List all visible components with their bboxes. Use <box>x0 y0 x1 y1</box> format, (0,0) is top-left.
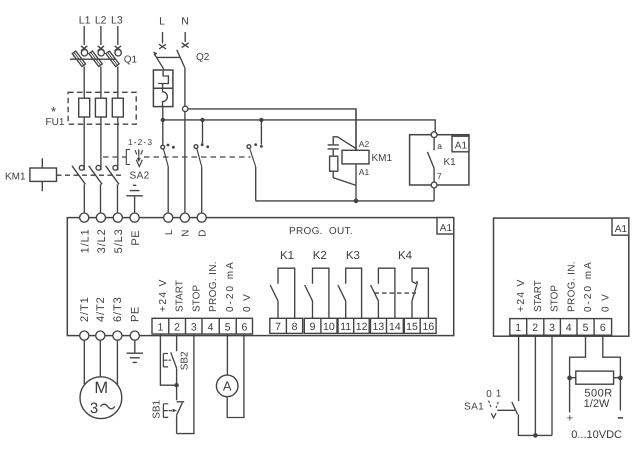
svg-text:L: L <box>164 229 175 235</box>
junction L bus at SA2 c2 <box>200 118 204 122</box>
pushbutton SB1 contact NC <box>177 385 185 433</box>
breaker Q2 linkage <box>157 56 180 58</box>
svg-text:M: M <box>94 379 108 397</box>
coil KM1 A2 lead <box>355 109 357 150</box>
resistor 500R power text <box>584 398 610 410</box>
wire Q2 L output to bus <box>162 107 164 146</box>
selector SA2 contact 2 <box>194 143 209 167</box>
label 0 V <box>242 293 253 312</box>
pushbutton SB1 label <box>152 399 163 418</box>
svg-text:START: START <box>175 280 186 312</box>
selector SA2 position label 1-2-3 <box>128 137 153 147</box>
terminal x L3 <box>115 46 121 51</box>
relay output K4 contact 15-16 NC <box>412 268 428 318</box>
label L <box>164 229 175 235</box>
resistor 500R stub left <box>570 377 576 379</box>
svg-text:N: N <box>181 230 192 237</box>
junction bottom bus at KM1 coil <box>354 199 359 204</box>
contactor KM1 pole 2 hook <box>96 165 101 170</box>
wire ammeter to terminal 6 <box>227 334 244 418</box>
svg-text:4/T2: 4/T2 <box>95 296 107 322</box>
relay output K2 contact <box>305 268 329 318</box>
pushbutton SB2 label <box>180 351 191 370</box>
svg-text:SA2: SA2 <box>130 171 150 182</box>
svg-text:PE: PE <box>129 306 141 322</box>
wire analog terminal2 down <box>534 335 536 435</box>
analog label STOP <box>550 285 561 312</box>
terminal L circle <box>164 213 173 222</box>
svg-text:11: 11 <box>340 321 351 333</box>
coil KM1 label <box>372 153 393 164</box>
svg-text:2: 2 <box>174 321 180 333</box>
svg-text:2: 2 <box>532 322 538 334</box>
coil KM1 box <box>342 150 369 164</box>
svg-text:PROG. IN.: PROG. IN. <box>208 261 219 312</box>
wire PE bottom to earth <box>134 340 136 353</box>
svg-text:PROG. OUT.: PROG. OUT. <box>289 226 353 237</box>
svg-text:L: L <box>159 16 165 28</box>
terminal strip 9-10 box <box>304 318 337 333</box>
svg-text:KM1: KM1 <box>372 153 393 164</box>
resistor 500R value text <box>584 387 612 399</box>
terminal strip 7-8 box <box>270 318 303 333</box>
svg-text:7: 7 <box>275 321 281 333</box>
svg-text:3: 3 <box>191 321 197 333</box>
terminal 2/T1 circle <box>80 331 89 340</box>
svg-text:STOP: STOP <box>191 285 202 312</box>
breaker Q2 trip unit box <box>153 70 173 107</box>
analog terminal 1 number <box>515 322 521 334</box>
relay K1 A1 tag text <box>455 141 468 152</box>
svg-text:4: 4 <box>208 321 214 333</box>
label 5/L3 <box>113 228 125 253</box>
wire terminal1 to SB2 branch <box>160 334 176 385</box>
selector SA2 label <box>130 171 150 182</box>
label 2/T1 <box>79 296 91 322</box>
disconnector Q1 pole 1 fuse blade <box>72 51 85 67</box>
label PROG. IN. <box>208 261 219 312</box>
relay output K3 label <box>346 250 360 262</box>
svg-text:L1: L1 <box>79 15 91 27</box>
contactor KM1 label left <box>5 172 26 183</box>
softstarter A1 tag box <box>437 218 454 234</box>
terminal x N <box>182 43 189 48</box>
fuse FU1 pole 3 <box>112 98 123 117</box>
svg-text:8: 8 <box>292 321 298 333</box>
label 1/L1 <box>80 228 92 253</box>
contactor KM1 operator box <box>30 168 57 181</box>
wire terminal 5 to ammeter <box>226 334 228 375</box>
label 4/T2 <box>95 296 107 322</box>
svg-text:K1: K1 <box>280 250 294 262</box>
plus terminal text <box>567 413 573 425</box>
breaker Q2 pole N blade <box>177 50 185 68</box>
selector SA2 position marks <box>135 149 143 154</box>
svg-text:A2: A2 <box>359 139 370 149</box>
svg-text:3: 3 <box>90 400 98 417</box>
svg-text:+24 V: +24 V <box>516 278 527 312</box>
relay output K1 label <box>280 250 294 262</box>
node L3 label <box>111 15 123 27</box>
relay K1 terminal 7 text <box>437 171 442 181</box>
terminal 6/T3 circle <box>113 331 122 340</box>
analog terminal 6 number <box>600 322 606 334</box>
svg-text:3: 3 <box>549 322 555 334</box>
label PE bottom <box>129 306 141 322</box>
svg-text:a: a <box>437 141 442 151</box>
svg-text:K4: K4 <box>398 250 413 262</box>
svg-text:15: 15 <box>406 321 418 333</box>
wire SA1 to bottom bus <box>518 415 552 436</box>
svg-text:1: 1 <box>496 388 502 399</box>
node L label <box>159 16 165 28</box>
suppressor resistor <box>330 149 338 171</box>
label N <box>181 230 192 237</box>
analog label START <box>533 280 544 312</box>
analog terminal 3 number <box>549 322 555 334</box>
suppressor capacitor plates <box>328 145 339 149</box>
wire L control bus <box>163 120 435 132</box>
breaker Q2 magnetic element <box>163 88 168 106</box>
svg-text:A1: A1 <box>455 141 468 152</box>
selector SA2 wiper arrow <box>136 151 142 167</box>
svg-text:A: A <box>223 379 232 394</box>
svg-text:KM1: KM1 <box>5 172 26 183</box>
disconnector Q1 linkage bar <box>70 58 115 60</box>
svg-text:1-2-3: 1-2-3 <box>128 137 153 147</box>
svg-text:Q1: Q1 <box>124 55 138 66</box>
FU1 asterisk mark <box>51 104 56 119</box>
svg-text:SB2: SB2 <box>180 351 191 370</box>
disconnector Q1 pole 2 contact circle <box>98 50 104 56</box>
wire analog terminal3 down <box>551 335 553 435</box>
terminal 6 number <box>241 321 247 333</box>
svg-text:0: 0 <box>486 389 492 400</box>
disconnector Q1 label <box>124 55 138 66</box>
svg-text:1: 1 <box>515 322 521 334</box>
breaker Q2 thermal element <box>158 70 168 88</box>
wire L2 to fuse <box>100 67 102 99</box>
junction SA1 bus terminal2 <box>533 433 538 438</box>
selector SA2 linkage dashed <box>103 156 251 158</box>
breaker Q2 label <box>196 52 210 63</box>
svg-text:K1: K1 <box>444 157 457 168</box>
earth symbol bottom PE <box>127 353 143 362</box>
wire analog terminal1 to SA1 <box>518 335 520 401</box>
contactor KM1 pole 3 hook <box>113 165 118 170</box>
label D <box>198 230 209 237</box>
wire SA2 c1 to L terminal <box>167 167 169 213</box>
FU1 label <box>46 117 65 128</box>
wire KM1 pole1 to terminal 1/L1 <box>83 184 85 213</box>
terminal 1 number <box>157 321 163 333</box>
wire fuse1 to KM1 contact <box>83 117 85 170</box>
relay K1 top node a <box>431 132 437 138</box>
terminal strip 1-6 box <box>152 318 253 334</box>
terminal 3/L2 circle <box>96 213 105 222</box>
wire L drop <box>162 32 164 44</box>
coil KM1 A1 text <box>359 167 370 177</box>
node N tap circle <box>183 106 188 111</box>
relay output K4 label <box>398 250 413 262</box>
PROG OUT label <box>289 226 353 237</box>
svg-text:START: START <box>533 280 544 312</box>
node L1 label <box>79 15 91 27</box>
terminal 7 number <box>275 321 281 333</box>
terminal 11 number <box>340 321 351 333</box>
svg-text:1/2W: 1/2W <box>584 398 610 410</box>
contactor KM1 pole 1 blade <box>72 166 85 185</box>
earth symbol above PE top terminal <box>126 185 143 213</box>
selector SA1 position 1 label <box>496 388 502 399</box>
svg-text:D: D <box>198 230 209 237</box>
svg-text:13: 13 <box>373 321 385 333</box>
wire SA2 c3 to control bottom bus <box>255 167 257 201</box>
terminal PE bottom circle <box>130 331 139 340</box>
label 0-20 mA <box>225 260 236 312</box>
svg-text:10: 10 <box>323 321 335 333</box>
selector SA1 blade <box>512 402 518 415</box>
svg-text:6: 6 <box>241 321 247 333</box>
svg-text:0-20 mA: 0-20 mA <box>225 260 236 312</box>
terminal 8 number <box>292 321 298 333</box>
wire control bottom bus <box>256 200 434 202</box>
label START <box>175 280 186 312</box>
svg-text:12: 12 <box>356 321 368 333</box>
disconnector Q1 pole 2 fuse blade <box>89 51 102 67</box>
analog label 0 V <box>600 293 611 312</box>
fuse group FU1 dashed box <box>68 92 136 124</box>
relay K1 bottom node 7 <box>431 182 437 188</box>
terminal 4/T2 circle <box>96 331 105 340</box>
label 3/L2 <box>96 228 108 253</box>
label PE top <box>130 230 142 246</box>
node L2 label <box>95 15 107 27</box>
terminal 9 number <box>310 321 316 333</box>
relay output K1 contact <box>270 268 295 318</box>
analog block A1 box <box>494 218 629 336</box>
coil KM1 A2 text <box>359 139 370 149</box>
suppressor RC top lead <box>333 137 356 149</box>
svg-text:0-20 mA: 0-20 mA <box>583 260 594 312</box>
svg-text:L2: L2 <box>95 15 107 27</box>
wire L bus to SA2 c3 <box>260 120 262 145</box>
junction SB2 SB1 <box>174 383 178 387</box>
wire N drop <box>184 32 186 42</box>
wire fuse2 to KM1 contact <box>100 117 102 170</box>
selector SA1 actuator bar <box>497 409 515 411</box>
contactor KM1 pole 1 hook <box>79 165 84 170</box>
resistor 500R stub right <box>614 377 621 379</box>
terminal strip 11-12 box <box>338 318 369 333</box>
selector SA2 contact 3 <box>247 143 263 167</box>
terminal 3 number <box>191 321 197 333</box>
contactor KM1 pole 2 blade <box>89 166 102 185</box>
svg-text:14: 14 <box>389 321 401 333</box>
disconnector Q1 pole 3 contact circle <box>115 50 121 56</box>
selector SA2 bracket <box>126 150 130 165</box>
terminal 4 number <box>208 321 214 333</box>
relay output K2 label <box>313 250 327 262</box>
terminal x L2 <box>98 46 104 51</box>
svg-text:4: 4 <box>566 322 572 334</box>
wire terminal6 to resistor right <box>603 335 621 410</box>
svg-text:3/L2: 3/L2 <box>96 228 108 253</box>
relay K1 box <box>410 135 469 185</box>
wire K1 bottom to bus <box>433 188 435 201</box>
wire L1 to fuse <box>83 67 85 99</box>
wire fuse3 to KM1 contact <box>117 117 119 170</box>
svg-text:A1: A1 <box>440 223 453 234</box>
wire SA2 c2 to D terminal <box>201 167 203 213</box>
supply range text 0...10VDC <box>571 429 622 441</box>
svg-text:PROG. IN.: PROG. IN. <box>566 261 577 312</box>
wire 4/T2 to motor <box>99 340 101 377</box>
svg-text:N: N <box>181 16 189 28</box>
junction L bus at SA2 c3 <box>259 118 263 122</box>
svg-text:+: + <box>567 413 573 425</box>
terminal 13 number <box>373 321 385 333</box>
suppressor RC bottom lead <box>333 171 356 185</box>
junction resistor right <box>618 376 623 381</box>
breaker Q2 pole L blade with arrow <box>153 52 164 70</box>
svg-text:PE: PE <box>130 230 142 246</box>
svg-text:A1: A1 <box>359 167 370 177</box>
relay K1 contact <box>427 138 434 183</box>
terminal 16 number <box>423 321 435 333</box>
junction resistor left <box>567 376 572 381</box>
wire L bus to SA2 c2 <box>202 120 204 143</box>
svg-text:6/T3: 6/T3 <box>112 296 124 322</box>
terminal 5 number <box>225 321 231 333</box>
svg-text:FU1: FU1 <box>46 117 65 128</box>
svg-text:1: 1 <box>157 321 163 333</box>
minus terminal mark <box>618 417 623 419</box>
wire terminal5 to resistor left <box>570 335 586 412</box>
contactor KM1 linkage dashed <box>57 174 124 176</box>
contactor KM1 pole 3 blade <box>106 166 119 185</box>
svg-text:9: 9 <box>310 321 316 333</box>
terminal 15 number <box>406 321 418 333</box>
svg-text:K3: K3 <box>346 250 360 262</box>
selector SA1 wiper arrow <box>491 413 496 418</box>
svg-text:SA1: SA1 <box>464 402 484 413</box>
softstarter A1 tag text <box>440 223 453 234</box>
terminal 5/L3 circle <box>113 213 122 222</box>
analog label 0-20 mA <box>583 260 594 312</box>
relay output K3 contact <box>338 268 362 318</box>
pushbutton SB2 actuator <box>163 354 171 368</box>
wire L2 drop <box>100 26 102 45</box>
junction L bus at SA2 c1 <box>161 118 165 122</box>
wire L3 drop <box>117 26 119 45</box>
selector SA1 label <box>464 402 484 413</box>
svg-text:16: 16 <box>423 321 435 333</box>
terminal PE top circle <box>130 213 139 222</box>
svg-text:+24 V: +24 V <box>158 278 169 312</box>
ammeter A text <box>223 379 232 394</box>
relay K1 label <box>444 157 457 168</box>
terminal strip 15-16 box <box>404 318 436 333</box>
svg-text:2/T1: 2/T1 <box>79 296 91 322</box>
motor 3 text <box>90 400 98 417</box>
relay K1 terminal a text <box>437 141 442 151</box>
pushbutton SB1 actuator <box>163 404 177 418</box>
fuse FU1 pole 1 <box>79 98 90 117</box>
analog terminal strip 1-6 box <box>510 319 612 336</box>
analog terminal 4 number <box>566 322 572 334</box>
wire 2/T1 to motor <box>83 340 85 384</box>
svg-text:5: 5 <box>583 322 589 334</box>
svg-text:STOP: STOP <box>550 285 561 312</box>
resistor 500R box <box>576 371 614 384</box>
fuse FU1 pole 2 <box>95 98 106 117</box>
terminal x L <box>159 44 166 49</box>
svg-text:1/L1: 1/L1 <box>80 228 92 253</box>
terminal N circle <box>180 213 189 222</box>
relay output K4 linkage dashed <box>375 292 417 294</box>
wire KM1 pole2 to terminal 3/L2 <box>100 184 102 213</box>
wire L1 drop <box>83 26 85 45</box>
relay K1 A1 tag box <box>452 136 469 152</box>
terminal 12 number <box>356 321 368 333</box>
svg-text:A1: A1 <box>615 224 628 235</box>
selector SA2 contact 1 <box>161 144 175 167</box>
analog terminal 5 number <box>583 322 589 334</box>
selector SA1 position 0 label <box>486 389 492 400</box>
wire SB1 to terminal 3 <box>177 334 194 434</box>
wire 6/T3 to motor <box>116 340 118 384</box>
svg-text:Q2: Q2 <box>196 52 210 63</box>
svg-text:5/L3: 5/L3 <box>113 228 125 253</box>
label 6/T3 <box>112 296 124 322</box>
analog block A1 tag box <box>612 218 629 235</box>
svg-text:L3: L3 <box>111 15 123 27</box>
contactor KM1 operator stubs <box>41 158 43 191</box>
terminal x L1 <box>81 46 87 51</box>
svg-text:7: 7 <box>437 171 442 181</box>
label STOP <box>191 285 202 312</box>
terminal 1/L1 circle <box>80 213 89 222</box>
selector SA1 position marks <box>489 401 499 408</box>
wire L3 to fuse <box>117 67 119 99</box>
coil KM1 A1 lead <box>355 164 357 201</box>
svg-text:0 V: 0 V <box>242 293 253 312</box>
label +24 V <box>158 278 169 312</box>
terminal 10 number <box>323 321 335 333</box>
svg-text:SB1: SB1 <box>152 399 163 418</box>
ammeter circle <box>216 375 238 397</box>
terminal strip 13-14 box <box>371 318 404 333</box>
disconnector Q1 pole 1 contact circle <box>81 50 87 56</box>
analog terminal 2 number <box>532 322 538 334</box>
svg-text:K2: K2 <box>313 250 327 262</box>
svg-text:5: 5 <box>225 321 231 333</box>
wire KM1 pole3 to terminal 5/L3 <box>117 184 119 213</box>
terminal 2 number <box>174 321 180 333</box>
motor M text <box>94 379 108 397</box>
node N label <box>181 16 189 28</box>
wire N control line to KM1 coil <box>188 109 356 150</box>
svg-text:6: 6 <box>600 322 606 334</box>
svg-text:0...10VDC: 0...10VDC <box>571 429 622 441</box>
analog label PROG. IN. <box>566 261 577 312</box>
wire Q2 N output down to N terminal <box>184 68 186 213</box>
motor tilde <box>101 404 115 409</box>
terminal D circle <box>197 213 206 222</box>
svg-text:0 V: 0 V <box>600 293 611 312</box>
motor M1 circle <box>80 377 122 419</box>
